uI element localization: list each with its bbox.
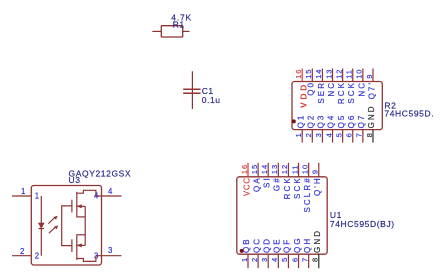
svg-text:Q6: Q6 xyxy=(347,114,356,129)
svg-text:15: 15 xyxy=(304,69,313,79)
svg-text:7: 7 xyxy=(355,132,364,137)
svg-text:13: 13 xyxy=(270,164,279,174)
svg-text:4: 4 xyxy=(324,132,333,137)
svg-text:SCK: SCK xyxy=(293,176,302,199)
svg-text:4: 4 xyxy=(94,192,99,201)
svg-text:11: 11 xyxy=(290,165,299,175)
svg-text:14: 14 xyxy=(260,164,269,174)
svg-text:NC: NC xyxy=(327,81,336,97)
svg-text:QD: QD xyxy=(262,237,271,253)
svg-text:13: 13 xyxy=(324,69,333,79)
svg-text:QH: QH xyxy=(303,237,312,253)
svg-text:3: 3 xyxy=(108,246,112,255)
svg-text:4: 4 xyxy=(108,187,113,196)
svg-text:QF: QF xyxy=(283,238,292,253)
svg-text:1: 1 xyxy=(294,132,303,137)
svg-text:Q3: Q3 xyxy=(317,114,326,129)
svg-text:Q5: Q5 xyxy=(337,114,346,129)
svg-text:0.1u: 0.1u xyxy=(202,95,221,105)
svg-text:4: 4 xyxy=(270,257,279,262)
svg-text:6: 6 xyxy=(290,257,299,262)
svg-text:14: 14 xyxy=(314,69,323,79)
svg-text:Q4: Q4 xyxy=(327,114,336,129)
svg-text:74HC595D.: 74HC595D. xyxy=(384,109,434,119)
svg-text:8: 8 xyxy=(365,132,374,137)
svg-text:9: 9 xyxy=(365,74,374,79)
svg-text:SI: SI xyxy=(263,176,272,188)
svg-text:15: 15 xyxy=(250,164,259,174)
svg-text:1: 1 xyxy=(21,187,25,196)
svg-text:GND: GND xyxy=(313,229,322,253)
svg-text:U3: U3 xyxy=(69,175,81,185)
svg-text:10: 10 xyxy=(300,164,309,174)
svg-text:NC: NC xyxy=(357,81,366,97)
svg-text:12: 12 xyxy=(280,164,289,174)
svg-text:11: 11 xyxy=(345,69,354,79)
svg-text:2: 2 xyxy=(250,257,259,262)
svg-text:12: 12 xyxy=(334,69,343,79)
svg-text:QG: QG xyxy=(293,236,302,253)
svg-text:Q'H: Q'H xyxy=(313,176,322,196)
svg-text:2: 2 xyxy=(304,132,313,137)
svg-text:G#: G# xyxy=(273,176,282,191)
svg-text:Q1: Q1 xyxy=(296,114,305,129)
svg-text:RCK: RCK xyxy=(283,176,292,199)
svg-text:10: 10 xyxy=(355,69,364,79)
svg-text:1: 1 xyxy=(35,192,39,201)
svg-text:R1: R1 xyxy=(173,20,185,30)
svg-text:16: 16 xyxy=(294,69,303,79)
svg-text:QA: QA xyxy=(253,176,262,192)
svg-text:SCK: SCK xyxy=(347,81,356,104)
svg-text:3: 3 xyxy=(260,257,269,262)
svg-text:5: 5 xyxy=(334,132,343,137)
svg-text:3: 3 xyxy=(314,132,323,137)
svg-text:QC: QC xyxy=(252,237,261,253)
svg-text:74HC595D(BJ): 74HC595D(BJ) xyxy=(330,219,395,229)
svg-text:SCLR#: SCLR# xyxy=(303,176,312,212)
svg-text:7: 7 xyxy=(300,257,309,262)
svg-text:6: 6 xyxy=(345,132,354,137)
svg-text:5: 5 xyxy=(280,257,289,262)
svg-text:16: 16 xyxy=(240,164,249,174)
svg-text:Q2: Q2 xyxy=(307,114,316,129)
svg-text:8: 8 xyxy=(311,257,320,262)
svg-text:Q0: Q0 xyxy=(307,81,316,96)
svg-text:QE: QE xyxy=(273,237,282,253)
svg-text:Q7': Q7' xyxy=(367,81,376,100)
svg-text:GND: GND xyxy=(367,104,376,128)
svg-text:Q7: Q7 xyxy=(357,114,366,129)
svg-text:VCC: VCC xyxy=(243,177,252,196)
svg-text:1: 1 xyxy=(240,257,249,262)
svg-text:9: 9 xyxy=(311,169,320,174)
svg-text:SER: SER xyxy=(317,81,326,104)
svg-text:2: 2 xyxy=(20,247,24,256)
svg-text:2: 2 xyxy=(35,251,39,260)
svg-text:RCK: RCK xyxy=(337,81,346,104)
